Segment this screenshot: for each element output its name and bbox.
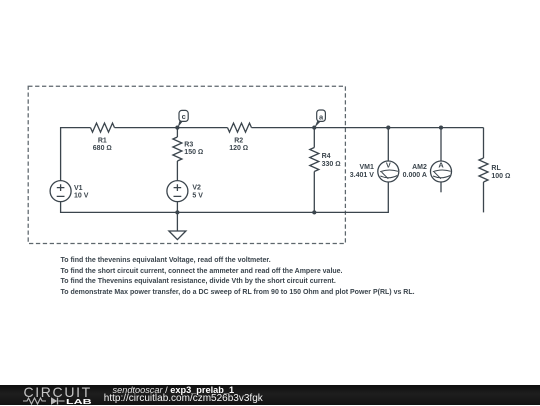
wire: R3 to V2 <box>176 161 178 181</box>
junction node c <box>175 126 179 130</box>
junction AM2 top <box>439 126 443 130</box>
note line 4 <box>61 289 415 296</box>
junction R4 bottom <box>312 210 316 214</box>
svg-text:V2: V2 <box>192 185 201 192</box>
svg-text:V1: V1 <box>74 185 83 192</box>
wire: R3 branch top lead <box>176 128 178 137</box>
resistor R4 with leads <box>310 128 319 213</box>
label R1 value <box>93 138 112 153</box>
svg-text:R1: R1 <box>98 138 107 145</box>
junction V2 bottom <box>175 210 179 214</box>
svg-text:150 Ω: 150 Ω <box>184 149 203 156</box>
thevenin boundary dashed box <box>28 86 345 243</box>
label V1 value <box>74 185 89 200</box>
wire: bottom rail from V1 to VM1 bottom <box>61 182 389 213</box>
note line 2 <box>61 268 343 275</box>
label V2 value <box>192 185 203 200</box>
footer title <box>113 385 235 395</box>
resistor R1 <box>91 123 115 132</box>
note line 3 <box>61 278 336 285</box>
svg-text:0.000 A: 0.000 A <box>403 172 427 179</box>
ammeter AM2 <box>431 128 452 182</box>
note line 1 <box>61 257 271 264</box>
svg-text:R4: R4 <box>322 153 331 160</box>
voltage source V2 <box>167 181 188 202</box>
svg-text:5 V: 5 V <box>192 192 203 199</box>
label VM1 value <box>350 164 374 179</box>
svg-text:R3: R3 <box>184 141 193 148</box>
resistor R2 <box>228 123 252 132</box>
svg-text:330 Ω: 330 Ω <box>322 161 341 168</box>
footer bar <box>0 385 540 406</box>
svg-text:c: c <box>182 112 186 121</box>
circuitlab logo text <box>24 384 92 400</box>
label R3 value <box>184 141 203 156</box>
junction VM1 top <box>386 126 390 130</box>
node a flag <box>315 110 326 128</box>
label RL value <box>491 165 510 180</box>
label R4 value <box>322 153 341 168</box>
wire: R2 to RL top corner through node a, VM1, AM2 <box>252 127 484 129</box>
svg-text:3.401 V: 3.401 V <box>350 172 374 179</box>
wire: V2 bottom lead <box>176 202 178 213</box>
resistor RL with leads <box>479 128 488 213</box>
node c flag <box>178 110 189 127</box>
circuitlab logo LAB <box>66 397 92 406</box>
junction node a <box>312 126 316 130</box>
svg-text:680 Ω: 680 Ω <box>93 145 112 152</box>
svg-text:R2: R2 <box>234 138 243 145</box>
voltmeter VM1 <box>378 128 399 182</box>
svg-text:V: V <box>386 161 391 170</box>
voltage source V1 <box>50 181 71 202</box>
svg-text:10 V: 10 V <box>74 193 89 200</box>
wire: left vertical + top rail to R1 <box>61 128 91 181</box>
svg-text:A: A <box>438 161 444 170</box>
ground <box>169 212 186 239</box>
resistor R3 <box>173 137 182 161</box>
wire: AM2 bottom stub <box>440 182 442 192</box>
svg-text:120 Ω: 120 Ω <box>229 145 248 152</box>
circuitlab logo squiggle <box>22 396 68 406</box>
svg-text:AM2: AM2 <box>412 164 427 171</box>
label AM2 value <box>403 164 427 179</box>
svg-text:RL: RL <box>491 165 501 172</box>
wire: R1 to R2 through node c <box>115 127 228 129</box>
label R2 value <box>229 138 248 153</box>
footer url <box>104 393 263 404</box>
svg-text:VM1: VM1 <box>359 164 374 171</box>
svg-text:100 Ω: 100 Ω <box>491 173 510 180</box>
